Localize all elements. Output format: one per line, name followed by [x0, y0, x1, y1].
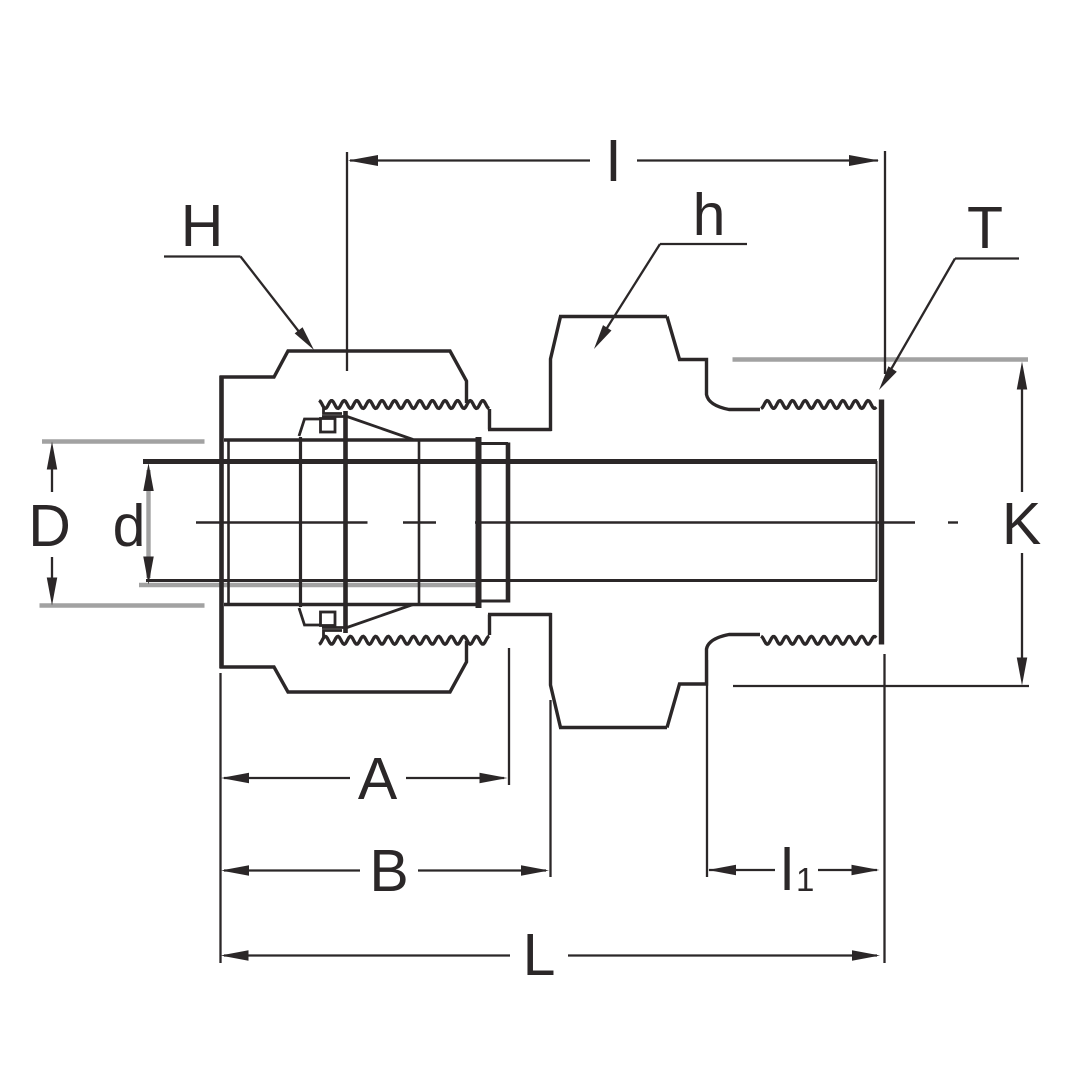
svg-text:T: T	[967, 195, 1003, 261]
svg-text:D: D	[28, 493, 71, 559]
svg-text:I: I	[605, 128, 621, 194]
svg-text:K: K	[1002, 491, 1041, 557]
svg-text:d: d	[113, 493, 146, 559]
svg-text:A: A	[358, 746, 398, 812]
svg-text:H: H	[181, 193, 224, 259]
svg-text:B: B	[369, 838, 408, 904]
svg-text:1: 1	[796, 861, 814, 898]
svg-text:l: l	[780, 837, 793, 903]
svg-text:L: L	[523, 922, 556, 988]
svg-text:h: h	[693, 182, 726, 248]
